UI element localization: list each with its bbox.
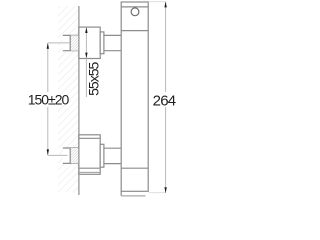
upper pipe to column bottom: [104, 50, 121, 52]
upper pipe top line: [63, 34, 79, 36]
lower flange trim line: [79, 171, 100, 173]
55 dim line: [85, 27, 87, 97]
lower pipe interior: [63, 148, 70, 163]
dim 264 line upper segment: [165, 2, 167, 92]
dim 264 top extension line: [149, 1, 166, 3]
wall hatch band: [58, 7, 79, 193]
lower pipe wall section hatch: [70, 148, 79, 163]
svg-text:150±20: 150±20: [28, 91, 70, 107]
lower pipe section left edge: [69, 148, 71, 164]
dim 150±20 line lower segment: [47, 107, 49, 155]
dim 150±20 arrow down: [47, 149, 49, 155]
column base skirt bottom line: [121, 195, 145, 197]
wall line: [78, 6, 80, 195]
column upper joint line: [121, 30, 148, 32]
lower flange inner top line: [79, 137, 100, 139]
dim 264 arrow down: [164, 187, 166, 193]
upper pipe interior: [63, 35, 70, 50]
upper centerline: [48, 42, 70, 44]
upper pipe bottom line: [63, 50, 79, 52]
55 dim arrow down: [85, 53, 87, 59]
lower pipe top line: [63, 147, 79, 149]
dim 150±20 arrow up: [47, 43, 49, 49]
lower centerline: [48, 154, 68, 156]
lower adapter: [100, 144, 104, 167]
svg-text:264: 264: [153, 93, 176, 110]
upper pipe section left edge: [69, 35, 71, 51]
lower pipe bottom line: [63, 162, 79, 164]
upper adapter: [100, 32, 104, 54]
dim 264 arrow up: [164, 2, 166, 8]
upper pipe wall section hatch: [70, 35, 79, 50]
dim 264 line lower segment: [165, 107, 167, 193]
lower pipe to column bottom: [104, 163, 121, 165]
dim 150±20 line upper segment: [47, 43, 49, 92]
55 dim arrow up: [85, 27, 87, 33]
lower pipe to column top: [104, 147, 121, 149]
column base skirt left edge: [120, 191, 122, 196]
column top cap line: [121, 6, 148, 8]
svg-text:55x55: 55x55: [86, 62, 102, 96]
upper pipe to column top: [104, 34, 121, 36]
dim 264 bottom extension line: [149, 192, 166, 194]
lower flange inner bottom line: [79, 167, 100, 169]
column lower joint line: [121, 167, 148, 169]
upper flange 55x55: [79, 27, 100, 58]
column body: [121, 2, 148, 191]
lower flange body: [79, 135, 100, 175]
column knob circle: [131, 8, 139, 16]
